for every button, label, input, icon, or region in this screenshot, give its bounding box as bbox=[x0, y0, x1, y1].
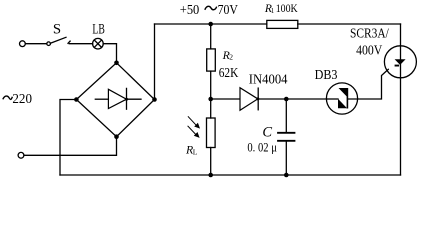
wire rail down to R2 bbox=[210, 24, 212, 49]
junction dot diode apex bbox=[125, 98, 128, 101]
capacitor C plates bbox=[278, 132, 295, 134]
bottom rail bbox=[60, 174, 401, 176]
photoresistor RL body bbox=[207, 118, 216, 148]
svg-text:400V: 400V bbox=[356, 44, 382, 59]
wire switch to lamp bbox=[69, 43, 92, 45]
junction dot bridge left bbox=[74, 97, 79, 102]
wire bridge left corner to bottom rail bbox=[60, 100, 76, 176]
svg-text:62K: 62K bbox=[219, 66, 239, 81]
junction dot bridge bottom bbox=[114, 134, 119, 139]
svg-text:S: S bbox=[53, 22, 61, 38]
svg-text:100K: 100K bbox=[276, 1, 298, 15]
wire T1 to switch bbox=[25, 43, 46, 45]
switch S right contact tick bbox=[68, 41, 70, 43]
SCR anode/cathode vertical wire bbox=[400, 24, 402, 175]
wire D1 to node B and DB3 bbox=[258, 98, 326, 100]
wire bridge bottom corner to terminal T2 bbox=[24, 137, 117, 156]
terminal T1 (AC line 1) bbox=[20, 41, 26, 47]
junction dot rail/R2 bbox=[208, 22, 213, 27]
junction dot cap bottom bbox=[284, 173, 289, 178]
svg-text:70V: 70V bbox=[218, 3, 238, 18]
lamp LB bbox=[93, 38, 104, 49]
wire bridge right corner up to +V rail bbox=[154, 24, 156, 100]
resistor R1 body bbox=[267, 20, 298, 28]
top +V rail bbox=[155, 23, 267, 25]
resistor R2 body bbox=[207, 49, 216, 71]
svg-text:220: 220 bbox=[12, 91, 32, 106]
RL light arrows bbox=[188, 116, 200, 137]
svg-text:2: 2 bbox=[229, 53, 233, 62]
capacitor C top wire bbox=[285, 99, 287, 132]
photoresistor RL bottom wire bbox=[210, 148, 212, 176]
diac DB3 symbol bbox=[339, 88, 348, 97]
terminal T2 (AC line 2) bbox=[18, 152, 24, 158]
label ~220 bbox=[3, 96, 13, 99]
diac DB3 circle bbox=[326, 83, 357, 114]
wire out of DB3 / gate wire to SCR bbox=[348, 69, 388, 99]
photoresistor RL top wire bbox=[210, 99, 212, 118]
junction dot node A bbox=[208, 97, 213, 102]
svg-text:0. 02 μ: 0. 02 μ bbox=[247, 140, 277, 155]
wire node A to diode D1 bbox=[211, 98, 240, 100]
diode D1 IN4004 bbox=[240, 88, 258, 111]
wire into DB3 bbox=[327, 98, 338, 100]
junction dot bridge top bbox=[114, 61, 119, 66]
SCR U1 symbol bbox=[395, 59, 406, 65]
junction dot bridge right bbox=[152, 97, 157, 102]
wire R2 to node A bbox=[210, 71, 212, 99]
svg-text:LB: LB bbox=[92, 22, 104, 38]
switch S arm bbox=[51, 37, 66, 43]
junction dot node B (cap top) bbox=[284, 97, 289, 102]
switch S left contact bbox=[47, 42, 51, 46]
svg-text:C: C bbox=[262, 124, 272, 140]
junction dot RL bottom bbox=[208, 173, 213, 178]
svg-text:DB3: DB3 bbox=[315, 67, 338, 82]
svg-text:IN4004: IN4004 bbox=[249, 71, 288, 86]
bridge inner diode bbox=[95, 98, 108, 100]
bridge rectifier diamond bbox=[76, 63, 154, 137]
svg-text:L: L bbox=[193, 147, 198, 156]
svg-text:+50: +50 bbox=[180, 3, 200, 18]
svg-text:SCR3A/: SCR3A/ bbox=[350, 26, 389, 41]
svg-text:1: 1 bbox=[271, 7, 275, 15]
junction dot D1 apex bbox=[256, 97, 259, 100]
capacitor C bottom wire bbox=[285, 142, 287, 176]
SCR circle bbox=[384, 46, 416, 78]
wire lamp to bridge top bbox=[103, 44, 116, 63]
